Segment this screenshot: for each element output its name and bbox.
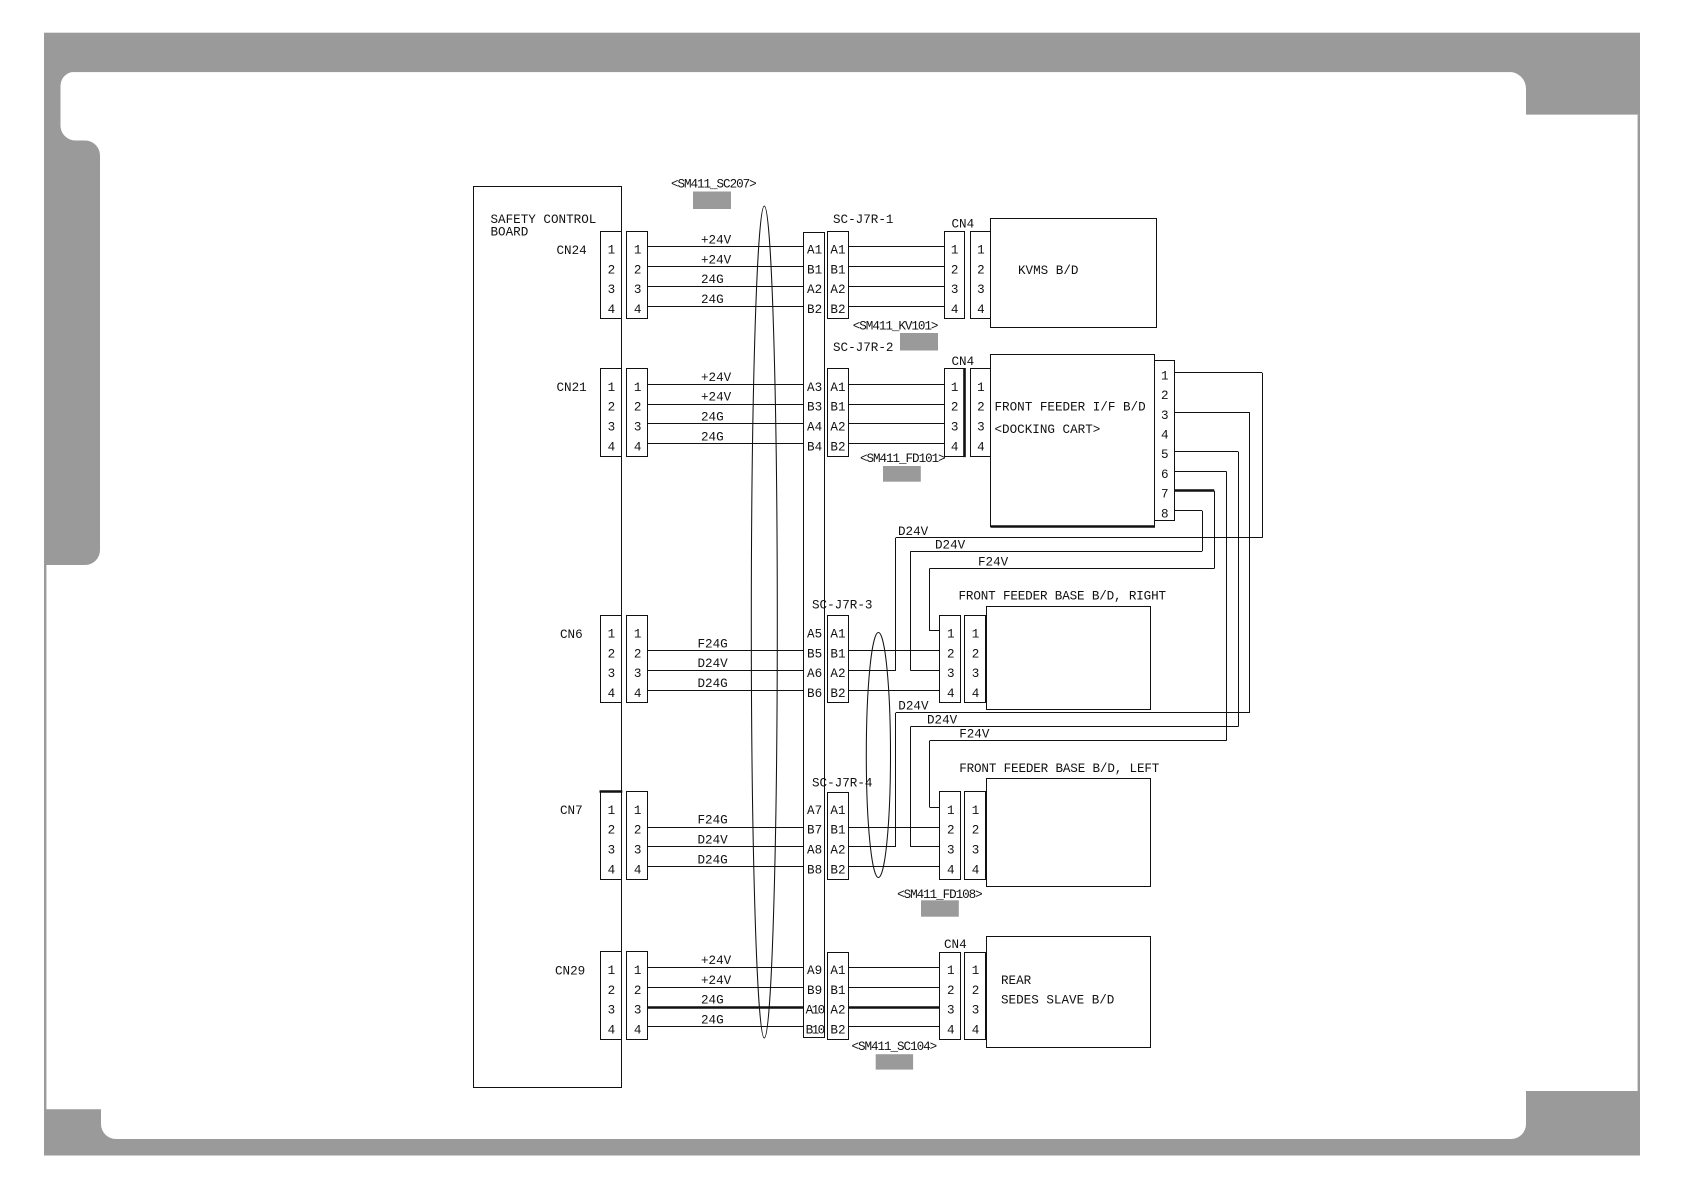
svg-text:CN24: CN24 <box>557 244 587 258</box>
wire CN29 pin3 24G <box>648 994 804 1008</box>
board FRONT FEEDER BASE B/D, RIGHT <box>959 590 1167 710</box>
svg-text:2: 2 <box>972 647 980 661</box>
svg-text:A1: A1 <box>830 244 845 258</box>
wire SC-J7R-3 B2 to feeder connector pin4 <box>848 690 939 692</box>
svg-text:D24G: D24G <box>698 853 728 867</box>
svg-text:+24V: +24V <box>701 371 732 385</box>
svg-text:SEDES SLAVE B/D: SEDES SLAVE B/D <box>1001 994 1114 1008</box>
board SAFETY CONTROL BOARD <box>474 187 622 1088</box>
cable bundle ellipse (feeder harness) <box>866 633 890 878</box>
wire CN29 pin2 +24V <box>648 974 804 988</box>
svg-text:4: 4 <box>951 303 959 317</box>
svg-text:D24V: D24V <box>935 538 966 552</box>
svg-text:SC-J7R-3: SC-J7R-3 <box>812 599 872 613</box>
svg-text:B7: B7 <box>807 824 822 838</box>
svg-text:B10: B10 <box>806 1024 825 1038</box>
wire CN21 pin4 24G <box>648 430 804 444</box>
svg-text:<SM411_KV101>: <SM411_KV101> <box>853 319 938 333</box>
wire CN6 pin4 D24G <box>648 677 804 691</box>
svg-text:B2: B2 <box>830 303 845 317</box>
svg-text:2: 2 <box>608 647 616 661</box>
svg-text:7: 7 <box>1161 488 1169 502</box>
svg-text:4: 4 <box>947 1024 955 1038</box>
wire riser to feeder connector pin3 (D24V) <box>911 846 940 848</box>
svg-text:1: 1 <box>947 628 955 642</box>
label <SM411_SC207> with redacted thumbnail <box>671 178 756 209</box>
svg-text:3: 3 <box>947 844 955 858</box>
wire CN7 pin4 D24G <box>648 853 804 867</box>
wire FF I/F pin7 riser down <box>1214 491 1216 569</box>
svg-text:4: 4 <box>977 303 985 317</box>
connector SC-J7R-1 (A1,B1,A2,B2) <box>828 213 894 318</box>
svg-text:1: 1 <box>951 381 959 395</box>
svg-text:A1: A1 <box>830 381 845 395</box>
svg-text:+24V: +24V <box>701 954 732 968</box>
wire SC-J7R-1 row1 to board connector <box>848 246 944 248</box>
wire CN4 side row4 to board connector <box>848 1026 939 1028</box>
svg-text:D24V: D24V <box>698 834 729 848</box>
svg-text:1: 1 <box>977 381 985 395</box>
wire SC-J7R-2 row3 to board connector <box>848 423 944 425</box>
trunk pins A1-B2 <box>807 244 822 317</box>
wire riser D24V to left feeder pin3 junction <box>895 713 897 847</box>
svg-text:2: 2 <box>634 984 642 998</box>
svg-text:1: 1 <box>634 964 642 978</box>
svg-text:2: 2 <box>947 984 955 998</box>
svg-text:CN6: CN6 <box>560 628 583 642</box>
svg-text:4: 4 <box>972 863 980 877</box>
svg-text:<SM411_FD101>: <SM411_FD101> <box>860 452 945 466</box>
svg-text:D24V: D24V <box>698 657 729 671</box>
svg-text:3: 3 <box>634 421 642 435</box>
svg-text:B9: B9 <box>807 984 822 998</box>
wire SC-J7R-3 B1 to feeder connector pin2 <box>848 650 939 652</box>
board-side connector pair for G4 <box>940 792 986 880</box>
svg-text:FRONT FEEDER BASE B/D, LEFT: FRONT FEEDER BASE B/D, LEFT <box>959 762 1160 776</box>
wire CN21 pin2 +24V <box>648 391 804 405</box>
svg-text:A2: A2 <box>830 844 845 858</box>
svg-text:B2: B2 <box>830 440 845 454</box>
svg-text:3: 3 <box>634 283 642 297</box>
svg-text:CN4: CN4 <box>952 355 975 369</box>
svg-text:1: 1 <box>972 964 980 978</box>
svg-text:A2: A2 <box>830 1004 845 1018</box>
wire CN24 pin2 +24V <box>648 253 804 267</box>
svg-text:2: 2 <box>951 263 959 277</box>
connector FF I/F right header (pins 1-8) <box>1155 361 1175 522</box>
wire FF I/F pin3 stub <box>1174 412 1250 414</box>
wire CN24 pin4 24G <box>648 293 804 307</box>
svg-text:2: 2 <box>977 263 985 277</box>
wire CN6 pin2 F24G <box>648 637 804 651</box>
wire CN29 pin4 24G <box>648 1014 804 1028</box>
svg-text:A4: A4 <box>807 421 822 435</box>
wire FF I/F pin6 riser down <box>1226 471 1228 741</box>
svg-text:4: 4 <box>972 687 980 701</box>
svg-text:A6: A6 <box>807 667 822 681</box>
svg-text:2: 2 <box>972 984 980 998</box>
svg-text:D24V: D24V <box>898 525 929 539</box>
svg-text:3: 3 <box>977 283 985 297</box>
svg-text:2: 2 <box>608 263 616 277</box>
svg-text:3: 3 <box>634 844 642 858</box>
svg-text:CN29: CN29 <box>555 964 585 978</box>
svg-text:KVMS B/D: KVMS B/D <box>1018 264 1078 278</box>
svg-text:1: 1 <box>608 804 616 818</box>
wire net D24V (FF I/F pin1) to right feeder <box>896 525 1262 539</box>
svg-text:2: 2 <box>947 824 955 838</box>
svg-text:3: 3 <box>972 844 980 858</box>
svg-text:1: 1 <box>608 244 616 258</box>
connector SC-J7R-4 (A1,B1,A2,B2) <box>812 777 872 880</box>
svg-text:8: 8 <box>1161 507 1169 521</box>
svg-text:BOARD: BOARD <box>491 226 529 240</box>
svg-text:F24G: F24G <box>698 814 728 828</box>
wire CN4 side row3 to board connector <box>848 1006 939 1008</box>
wire riser F24V to left feeder pin1 <box>930 741 940 808</box>
wire SC-J7R-3 A2 (D24V) segment to riser <box>848 670 895 672</box>
svg-text:SC-J7R-1: SC-J7R-1 <box>833 213 893 227</box>
svg-text:4: 4 <box>972 1024 980 1038</box>
wire net D24V (FF I/F pin5) to left feeder <box>911 713 1239 727</box>
trunk pins A7-B8 <box>807 804 822 877</box>
svg-text:3: 3 <box>947 667 955 681</box>
board FRONT FEEDER BASE B/D, LEFT <box>959 762 1160 886</box>
wire FF I/F pin7 stub <box>1174 489 1214 491</box>
svg-text:2: 2 <box>634 401 642 415</box>
label <SM411_SC104> with redacted thumbnail <box>852 1040 937 1070</box>
svg-text:+24V: +24V <box>701 391 732 405</box>
svg-text:B8: B8 <box>807 863 822 877</box>
svg-text:A2: A2 <box>807 283 822 297</box>
svg-text:B1: B1 <box>830 401 845 415</box>
svg-text:B2: B2 <box>807 303 822 317</box>
connector CN29 on safety control board <box>555 952 648 1040</box>
svg-text:2: 2 <box>951 401 959 415</box>
svg-text:3: 3 <box>977 421 985 435</box>
svg-text:1: 1 <box>608 628 616 642</box>
wire SC-J7R-1 row2 to board connector <box>848 266 944 268</box>
svg-text:1: 1 <box>634 244 642 258</box>
svg-text:3: 3 <box>608 421 616 435</box>
svg-text:1: 1 <box>608 381 616 395</box>
connector CN6 on safety control board <box>560 616 648 703</box>
svg-text:D24V: D24V <box>927 713 958 727</box>
trunk pins A5-B6 <box>807 628 822 701</box>
wire CN7 pin3 D24V <box>648 834 804 848</box>
svg-text:24G: 24G <box>701 430 724 444</box>
svg-text:CN7: CN7 <box>560 804 583 818</box>
connector SC-J7R-3 (A1,B1,A2,B2) <box>812 599 872 703</box>
svg-text:4: 4 <box>634 863 642 877</box>
svg-text:4: 4 <box>634 687 642 701</box>
svg-text:F24G: F24G <box>698 637 728 651</box>
svg-text:24G: 24G <box>701 411 724 425</box>
wire CN29 pin1 +24V <box>648 954 804 968</box>
svg-text:F24V: F24V <box>978 555 1009 569</box>
svg-text:A7: A7 <box>807 804 822 818</box>
trunk pins A3-B4 <box>807 381 822 454</box>
svg-text:5: 5 <box>1161 448 1169 462</box>
board-side connector pair for G1 <box>945 218 991 319</box>
board FRONT FEEDER I/F B/D (DOCKING CART) <box>991 355 1156 527</box>
svg-text:2: 2 <box>1161 389 1169 403</box>
board-side connector pair for G5 <box>940 938 986 1039</box>
wire CN7 pin2 F24G <box>648 814 804 828</box>
svg-text:B6: B6 <box>807 687 822 701</box>
board REAR SEDES SLAVE B/D <box>987 937 1151 1048</box>
wire FF I/F pin8 riser down <box>1202 511 1204 552</box>
svg-text:4: 4 <box>608 440 616 454</box>
wire net F24V (FF I/F pin7) to right feeder <box>930 555 1215 569</box>
svg-text:B4: B4 <box>807 440 822 454</box>
svg-text:2: 2 <box>947 647 955 661</box>
svg-text:3: 3 <box>1161 409 1169 423</box>
svg-text:A10: A10 <box>806 1004 825 1018</box>
wire CN21 pin3 24G <box>648 411 804 425</box>
svg-text:B3: B3 <box>807 401 822 415</box>
svg-text:3: 3 <box>608 1004 616 1018</box>
svg-text:4: 4 <box>947 863 955 877</box>
wire CN24 pin3 24G <box>648 273 804 287</box>
svg-text:24G: 24G <box>701 994 724 1008</box>
svg-text:B2: B2 <box>830 687 845 701</box>
svg-text:2: 2 <box>608 824 616 838</box>
board-side connector pair for G2 <box>945 355 991 457</box>
svg-text:B1: B1 <box>830 984 845 998</box>
svg-text:<SM411_SC104>: <SM411_SC104> <box>852 1040 937 1054</box>
connector CN21 on safety control board <box>557 369 648 457</box>
svg-text:2: 2 <box>634 647 642 661</box>
svg-text:1: 1 <box>947 964 955 978</box>
svg-text:1: 1 <box>1161 369 1169 383</box>
wire riser D24V to right feeder pin3 junction <box>895 538 897 671</box>
wire SC-J7R-2 row1 to board connector <box>848 384 944 386</box>
wire CN4 side row1 to board connector <box>848 967 939 969</box>
svg-text:3: 3 <box>951 421 959 435</box>
svg-text:SC-J7R-2: SC-J7R-2 <box>833 341 893 355</box>
svg-text:3: 3 <box>972 1004 980 1018</box>
svg-text:+24V: +24V <box>701 974 732 988</box>
svg-text:4: 4 <box>634 303 642 317</box>
svg-text:B1: B1 <box>830 824 845 838</box>
svg-text:3: 3 <box>634 667 642 681</box>
svg-text:3: 3 <box>972 667 980 681</box>
cable bundle ellipse (main harness) <box>751 206 777 1038</box>
svg-text:4: 4 <box>634 440 642 454</box>
svg-text:24G: 24G <box>701 293 724 307</box>
svg-text:CN21: CN21 <box>557 381 587 395</box>
svg-text:A2: A2 <box>830 283 845 297</box>
svg-text:1: 1 <box>608 964 616 978</box>
svg-text:6: 6 <box>1161 468 1169 482</box>
connector CN4 side (A1,B1,A2,B2) <box>828 953 849 1040</box>
svg-text:D24G: D24G <box>698 677 728 691</box>
svg-text:F24V: F24V <box>959 728 990 742</box>
svg-text:3: 3 <box>608 844 616 858</box>
wire riser D24V to right feeder pin3 <box>910 551 912 670</box>
svg-text:4: 4 <box>977 440 985 454</box>
svg-text:1: 1 <box>977 244 985 258</box>
trunk pins A9-B10 <box>806 964 825 1037</box>
svg-text:1: 1 <box>951 244 959 258</box>
wire SC-J7R-4 B2 to feeder connector pin4 <box>848 866 939 868</box>
wire FF I/F pin8 stub <box>1174 510 1202 512</box>
svg-text:D24V: D24V <box>898 700 929 714</box>
svg-text:2: 2 <box>608 401 616 415</box>
svg-text:A1: A1 <box>807 244 822 258</box>
svg-text:B5: B5 <box>807 647 822 661</box>
wire FF I/F pin1 riser down <box>1262 373 1264 538</box>
wire FF I/F pin1 stub <box>1174 372 1262 374</box>
wire SC-J7R-2 row4 to board connector <box>848 443 944 445</box>
svg-text:<SM411_FD108>: <SM411_FD108> <box>897 888 982 902</box>
wire net D24V (FF I/F pin8) to right feeder <box>911 538 1203 552</box>
connector CN24 on safety control board <box>557 232 648 319</box>
wire CN24 pin1 +24V <box>648 234 804 248</box>
wire FF I/F pin3 riser down <box>1249 412 1251 713</box>
board-side connector pair for G3 <box>940 616 986 703</box>
svg-text:CN4: CN4 <box>952 218 975 232</box>
svg-text:3: 3 <box>634 1004 642 1018</box>
svg-text:4: 4 <box>608 303 616 317</box>
svg-text:1: 1 <box>634 628 642 642</box>
svg-text:B2: B2 <box>830 1024 845 1038</box>
svg-text:1: 1 <box>972 804 980 818</box>
connector CN7 on safety control board <box>560 792 648 880</box>
wire FF I/F pin5 stub <box>1174 451 1238 453</box>
svg-text:SC-J7R-4: SC-J7R-4 <box>812 777 872 791</box>
svg-text:A1: A1 <box>830 964 845 978</box>
svg-text:1: 1 <box>634 804 642 818</box>
svg-text:A8: A8 <box>807 844 822 858</box>
label <SM411_KV101> with redacted thumbnail <box>853 319 938 350</box>
svg-text:FRONT FEEDER BASE B/D, RIGHT: FRONT FEEDER BASE B/D, RIGHT <box>959 590 1167 604</box>
wire riser F24V to right feeder pin1 <box>930 569 940 632</box>
svg-text:A1: A1 <box>830 628 845 642</box>
wire SC-J7R-4 B1 to feeder connector pin2 <box>848 827 939 829</box>
svg-text:A1: A1 <box>830 804 845 818</box>
wire CN4 side row2 to board connector <box>848 987 939 989</box>
svg-text:2: 2 <box>977 401 985 415</box>
label <SM411_FD108> with redacted thumbnail <box>897 888 982 917</box>
svg-text:4: 4 <box>608 1024 616 1038</box>
svg-text:B1: B1 <box>830 263 845 277</box>
svg-text:2: 2 <box>634 263 642 277</box>
wire FF I/F pin6 stub <box>1174 471 1226 473</box>
svg-text:24G: 24G <box>701 1014 724 1028</box>
wire net D24V (FF I/F pin3) to left feeder <box>896 700 1250 714</box>
svg-text:+24V: +24V <box>701 234 732 248</box>
wire riser D24V to left feeder pin3 <box>910 727 912 847</box>
board KVMS B/D <box>991 219 1157 328</box>
svg-text:REAR: REAR <box>1001 974 1032 988</box>
connector SC-J7R-2 (A1,B1,A2,B2) <box>828 341 894 457</box>
svg-text:B1: B1 <box>830 647 845 661</box>
svg-text:4: 4 <box>1161 429 1169 443</box>
svg-text:4: 4 <box>608 863 616 877</box>
svg-text:B1: B1 <box>807 263 822 277</box>
svg-text:2: 2 <box>634 824 642 838</box>
svg-text:A2: A2 <box>830 667 845 681</box>
wire CN6 pin3 D24V <box>648 657 804 671</box>
wire SC-J7R-1 row4 to board connector <box>848 306 944 308</box>
svg-text:<DOCKING CART>: <DOCKING CART> <box>995 423 1101 437</box>
svg-text:A5: A5 <box>807 628 822 642</box>
svg-text:3: 3 <box>951 283 959 297</box>
svg-text:4: 4 <box>634 1024 642 1038</box>
wire net F24V (FF I/F pin6) to left feeder <box>930 728 1226 742</box>
wire SC-J7R-4 A2 (D24V) segment to riser <box>848 846 895 848</box>
svg-text:4: 4 <box>947 687 955 701</box>
svg-text:A3: A3 <box>807 381 822 395</box>
wire riser to feeder connector pin3 (D24V) <box>911 670 940 672</box>
svg-text:CN4: CN4 <box>944 938 967 952</box>
svg-text:2: 2 <box>972 824 980 838</box>
svg-text:1: 1 <box>634 381 642 395</box>
svg-text:+24V: +24V <box>701 253 732 267</box>
svg-text:FRONT FEEDER I/F B/D: FRONT FEEDER I/F B/D <box>995 401 1146 415</box>
svg-text:B2: B2 <box>830 863 845 877</box>
svg-text:3: 3 <box>608 283 616 297</box>
svg-text:2: 2 <box>608 984 616 998</box>
svg-text:<SM411_SC207>: <SM411_SC207> <box>671 178 756 192</box>
svg-text:3: 3 <box>608 667 616 681</box>
svg-text:4: 4 <box>951 440 959 454</box>
wire FF I/F pin5 riser down <box>1238 452 1240 727</box>
svg-text:4: 4 <box>608 687 616 701</box>
svg-text:1: 1 <box>947 804 955 818</box>
wire SC-J7R-2 row2 to board connector <box>848 404 944 406</box>
wire CN21 pin1 +24V <box>648 371 804 385</box>
wire SC-J7R-1 row3 to board connector <box>848 286 944 288</box>
svg-text:3: 3 <box>947 1004 955 1018</box>
svg-text:A2: A2 <box>830 421 845 435</box>
label <SM411_FD101> with redacted thumbnail <box>860 452 945 482</box>
svg-text:A9: A9 <box>807 964 822 978</box>
svg-text:24G: 24G <box>701 273 724 287</box>
svg-text:1: 1 <box>972 628 980 642</box>
harness trunk connector column SC-J7R (pins A1-B10) <box>804 233 825 1038</box>
